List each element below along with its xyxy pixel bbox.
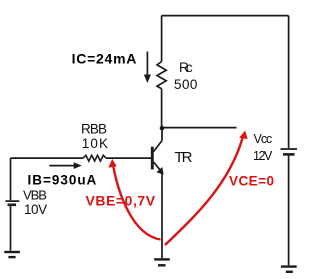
node collector junction dot [160,126,165,131]
svg-text:VCE=0: VCE=0 [229,173,274,188]
wire collector node to Vcc side [162,127,237,129]
wire base right segment [106,157,151,159]
ground left [4,252,20,257]
svg-text:Vcc: Vcc [254,132,273,146]
svg-text:RBB: RBB [81,122,107,137]
wire top horizontal (Vcc rail) [162,15,289,17]
wire emitter vertical [161,173,163,258]
label Vcc / 12V [253,132,273,163]
svg-text:VBE=0,7V: VBE=0,7V [86,193,156,209]
svg-text:VBB: VBB [23,187,47,202]
wire collector lower vertical (resistor to node) [161,89,163,127]
wire collector node down to transistor [161,129,163,141]
current arrow IC [144,52,151,84]
svg-text:IC=24mA: IC=24mA [72,50,137,66]
wire base left segment [11,157,84,159]
ground right [281,267,297,272]
label VBB / 10V [23,187,47,217]
battery VBB [6,201,20,205]
current arrow IB [49,162,81,169]
wire right vertical lower (Vcc battery to ground) [288,156,290,266]
svg-text:TR: TR [175,149,193,166]
svg-text:12V: 12V [253,149,273,163]
wire collector upper vertical [161,16,163,62]
svg-text:10V: 10V [24,202,47,217]
transistor TR [152,141,163,175]
svg-text:500: 500 [174,77,197,92]
annotation arrow VCE (red) [165,131,248,245]
svg-text:10K: 10K [82,136,108,151]
resistor RBB [83,155,106,161]
svg-text:Rc: Rc [179,60,193,75]
wire left vertical (VBB battery to ground) [10,206,12,251]
value label 500 / Rc [174,60,197,92]
ground emitter [154,259,170,265]
wire right vertical upper (to Vcc battery) [288,16,290,148]
wire left vertical (corner to VBB battery) [10,158,12,200]
label RBB / 10K [81,122,108,151]
battery Vcc [281,149,298,154]
annotation arrow VBE (red) [108,159,160,240]
resistor Rc [157,62,166,89]
svg-text:IB=930uA: IB=930uA [28,173,97,188]
